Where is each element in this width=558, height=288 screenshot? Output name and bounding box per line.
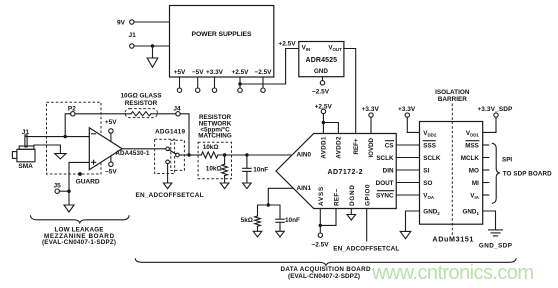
guard ring (dashed) xyxy=(47,102,102,174)
svg-text:GPIO0: GPIO0 xyxy=(364,184,371,206)
svg-text:+2.5V: +2.5V xyxy=(232,69,250,76)
connector J1 (power input) xyxy=(129,32,137,48)
ground (GND2) xyxy=(400,231,411,238)
wire DGND to ground xyxy=(350,209,352,215)
wire SMA shield xyxy=(34,145,61,153)
supply terminal +3.3V_SDP xyxy=(477,106,513,117)
wire P2 to inverting input xyxy=(65,114,70,137)
svg-text:POWER SUPPLIES: POWER SUPPLIES xyxy=(192,31,252,38)
pin stub +5V xyxy=(177,77,181,92)
svg-text:SCLK: SCLK xyxy=(423,155,441,162)
wire SMA centre pin to op-amp inverting input xyxy=(26,136,89,138)
svg-text:SMA: SMA xyxy=(18,163,33,170)
svg-text:MSS: MSS xyxy=(465,143,479,150)
pin stub +3.3V xyxy=(212,77,216,92)
svg-text:AD7172-2: AD7172-2 xyxy=(328,169,363,176)
svg-text:REF−: REF− xyxy=(334,189,341,206)
svg-text:DOUT: DOUT xyxy=(376,180,394,187)
svg-text:J5: J5 xyxy=(53,182,61,189)
junction shunt resistor node xyxy=(223,153,226,156)
ground (shunt resistor) xyxy=(220,183,229,189)
wire P2 to 10G resistor (feedback) xyxy=(75,113,126,115)
isolation barrier dashed line (through isolator) xyxy=(451,122,453,225)
svg-text:ISOLATION: ISOLATION xyxy=(435,89,470,96)
ADC U4 AD7172-2 xyxy=(276,134,396,209)
connector P2 xyxy=(68,106,76,116)
wire SCLK xyxy=(396,157,419,159)
wire J1 to power supplies xyxy=(134,45,170,47)
junction AVSS/REF- xyxy=(319,224,322,227)
svg-text:EN_ADCOFFSETCAL: EN_ADCOFFSETCAL xyxy=(333,246,399,253)
svg-text:+3.3V: +3.3V xyxy=(206,69,224,76)
svg-text:SSS: SSS xyxy=(423,143,436,150)
supply terminal +3.3V (IOVDD) xyxy=(362,106,380,118)
svg-text:AVDD1: AVDD1 xyxy=(321,136,328,159)
pin stub +2.5V xyxy=(238,77,242,92)
svg-text:EN_ADCOFFSETCAL: EN_ADCOFFSETCAL xyxy=(136,192,204,199)
pin stub VIA xyxy=(483,194,489,196)
resistor R2 10k (shunt) xyxy=(206,155,228,183)
svg-text:SO: SO xyxy=(423,180,432,187)
svg-text:5kΩ: 5kΩ xyxy=(241,217,253,224)
svg-text:9V: 9V xyxy=(117,20,126,27)
svg-text:+2.5V: +2.5V xyxy=(278,40,296,47)
svg-text:www.cntronics.com: www.cntronics.com xyxy=(371,262,534,284)
svg-text:−2.5V: −2.5V xyxy=(255,69,273,76)
wire DOUT to SO xyxy=(396,182,419,184)
pin MSS xyxy=(465,141,479,150)
brace data acquisition board xyxy=(135,259,516,266)
wire DIN to SI xyxy=(396,169,419,171)
wire GPIO0 xyxy=(366,209,368,241)
wire op-amp output to switch xyxy=(122,148,166,150)
resistor 10G glass (capsule) xyxy=(125,109,158,118)
svg-text:10nF: 10nF xyxy=(285,217,300,224)
svg-text:DIN: DIN xyxy=(383,168,394,175)
svg-text:MO: MO xyxy=(469,168,479,175)
svg-text:10kΩ: 10kΩ xyxy=(203,144,219,151)
wire switch common to network xyxy=(179,154,189,156)
svg-text:+5V: +5V xyxy=(174,69,186,76)
junction filter cap node xyxy=(245,153,248,156)
svg-text:GUARD: GUARD xyxy=(76,178,100,185)
svg-text:SCLK: SCLK xyxy=(376,155,394,162)
ground (C2) xyxy=(276,231,285,237)
svg-text:CS: CS xyxy=(385,143,394,150)
pin stub -2.5V xyxy=(261,77,265,92)
wire ADR4525 VOUT to REF+ xyxy=(344,49,356,134)
power supplies block xyxy=(170,6,274,78)
svg-text:SPI: SPI xyxy=(502,157,512,164)
capacitor C1 10nF (AIN0) xyxy=(243,155,269,183)
wire GND1 to GND_SDP xyxy=(483,211,496,230)
junction AVDD branch xyxy=(322,121,325,124)
svg-text:BARRIER: BARRIER xyxy=(438,96,467,103)
pin SYNC xyxy=(376,191,394,200)
connector J4 xyxy=(173,105,181,116)
ground (switch offset-cal) xyxy=(163,183,172,189)
svg-text:AVDD2: AVDD2 xyxy=(336,136,343,159)
capacitor C2 10nF (AIN1) xyxy=(268,205,300,231)
brace low leakage mezzanine board xyxy=(31,216,130,223)
supply terminal +2.5V (AVDD) xyxy=(315,104,333,114)
wire node to series resistor xyxy=(189,154,201,156)
svg-text:+3.3V: +3.3V xyxy=(398,106,416,113)
wire AVDD branch to AVDD2 xyxy=(323,123,338,134)
svg-text:GND: GND xyxy=(314,68,328,75)
svg-text:MATCHING: MATCHING xyxy=(198,133,232,140)
wire op-amp non-inverting input xyxy=(69,162,89,204)
resistor 10G glass (label) xyxy=(121,93,163,107)
pin stub MO xyxy=(483,169,489,171)
svg-text:(EVAL-CN0407-1-SDPZ): (EVAL-CN0407-1-SDPZ) xyxy=(42,239,116,246)
SPI brace xyxy=(492,143,500,203)
supply terminal +5V (op-amp) xyxy=(105,119,117,141)
svg-text:−2.5V: −2.5V xyxy=(312,88,330,95)
pin SSS xyxy=(423,141,436,150)
switch ADG1419 dashed outline xyxy=(155,139,185,173)
svg-text:J1: J1 xyxy=(129,32,137,39)
wire +2.5V to ADR4525 VIN xyxy=(240,49,299,85)
svg-text:AIN1: AIN1 xyxy=(297,185,312,192)
ground (SMA shield) xyxy=(55,154,66,159)
wire 10G resistor to J4 xyxy=(158,113,176,115)
svg-text:10nF: 10nF xyxy=(253,167,268,174)
wire AIN1 xyxy=(268,188,293,205)
isolation barrier dashed line xyxy=(451,104,453,236)
svg-text:AVSS: AVSS xyxy=(318,187,325,206)
svg-text:−2.5V: −2.5V xyxy=(311,241,329,248)
junction on J1 return wire xyxy=(151,44,154,47)
svg-text:REF+: REF+ xyxy=(353,138,360,154)
svg-text:DGND: DGND xyxy=(349,185,356,206)
supply terminal -5V (op-amp) xyxy=(105,156,117,176)
svg-text:−5V: −5V xyxy=(192,69,204,76)
wire switch lower throw to ground xyxy=(167,164,169,183)
junction feedback node xyxy=(187,153,190,156)
svg-text:ADA4530-1: ADA4530-1 xyxy=(115,150,150,157)
svg-text:GND_SDP: GND_SDP xyxy=(479,242,512,249)
wire REF- to AVSS xyxy=(320,209,336,226)
ground (power input) xyxy=(147,58,158,67)
earth ground GND_SDP xyxy=(479,230,512,250)
svg-text:−5V: −5V xyxy=(105,169,117,176)
svg-text:RESISTOR: RESISTOR xyxy=(125,100,158,107)
svg-text:(EVAL-CN0407-2-SDPZ): (EVAL-CN0407-2-SDPZ) xyxy=(288,273,360,280)
wire GND2 to ground xyxy=(406,211,420,231)
svg-text:IOVDD: IOVDD xyxy=(368,137,375,157)
connector J5 xyxy=(53,182,61,193)
wire J5 to non-inverting input xyxy=(59,190,69,192)
svg-text:ADG1419: ADG1419 xyxy=(155,129,185,136)
resistor R3 5k (AIN1) xyxy=(241,205,269,231)
label data acquisition board xyxy=(281,266,371,280)
junction J5 node xyxy=(67,190,70,193)
isolator U5 ADuM3151 xyxy=(420,122,483,244)
pin stub -5V xyxy=(196,77,200,92)
wire SYNC to VOA xyxy=(396,194,419,196)
svg-text:ADR4525: ADR4525 xyxy=(306,57,338,64)
svg-text:MI: MI xyxy=(472,180,479,187)
ground (C1) xyxy=(243,183,252,189)
svg-text:SI: SI xyxy=(423,168,429,175)
junction inverting input node xyxy=(63,135,66,138)
guard node dot xyxy=(76,172,100,185)
resistor network dashed box xyxy=(198,142,231,179)
pin CS xyxy=(385,141,394,150)
wire +3.3V to IOVDD xyxy=(370,117,372,133)
resistor R1 10k (series) xyxy=(201,144,218,158)
svg-text:+3.3V: +3.3V xyxy=(362,106,380,113)
wire +3.3V to VDD2 xyxy=(407,117,419,132)
terminal -2.5V (AVSS) xyxy=(311,233,329,248)
ground (R3) xyxy=(253,231,262,237)
svg-text:MCLK: MCLK xyxy=(461,155,480,162)
supply terminal +3.3V (ADuM VDD2) xyxy=(398,106,416,118)
label low leakage mezzanine board xyxy=(42,227,116,246)
svg-text:10kΩ: 10kΩ xyxy=(206,166,222,173)
svg-text:TO SDP BOARD: TO SDP BOARD xyxy=(503,171,552,178)
isolation barrier label xyxy=(435,89,470,103)
wire AIN0 xyxy=(247,154,292,156)
resistor network label xyxy=(198,114,232,140)
SMA connector body xyxy=(12,135,35,170)
wire 9V to power supplies xyxy=(134,21,170,23)
wire series resistor to AIN0 node xyxy=(218,154,247,156)
wire AVSS to -2.5V xyxy=(319,209,321,234)
wire CS to SSS xyxy=(396,144,419,146)
svg-text:+3.3V_SDP: +3.3V_SDP xyxy=(477,106,513,113)
wire junction to ground xyxy=(152,46,154,58)
junction AIN1 RC node xyxy=(267,203,270,206)
voltage reference U2 ADR4525 xyxy=(299,42,344,77)
op-amp U1 ADA4530-1 xyxy=(89,128,150,170)
junction on +2.5V pin xyxy=(238,82,241,85)
ground (J5 / non-inverting input) xyxy=(64,205,74,212)
ground (DGND) xyxy=(347,215,356,221)
wire +3.3V_SDP to VDD1 xyxy=(483,117,496,132)
pin stub MSS xyxy=(483,144,489,146)
svg-text:10GΩ GLASS: 10GΩ GLASS xyxy=(121,93,163,100)
wire +2.5V to AVDD1 xyxy=(322,114,324,134)
wire J4 to switch output node xyxy=(180,114,189,155)
pin stub MCLK xyxy=(483,157,489,159)
svg-text:ADuM3151: ADuM3151 xyxy=(432,235,473,244)
node 9V terminal xyxy=(117,20,134,27)
pin stub MI xyxy=(483,182,489,184)
svg-text:SYNC: SYNC xyxy=(376,193,394,200)
svg-text:AIN0: AIN0 xyxy=(297,152,312,159)
pin stub ADR4525 GND xyxy=(320,77,324,85)
switch ADG1419 contacts xyxy=(166,147,179,164)
svg-text:+5V: +5V xyxy=(105,119,117,126)
